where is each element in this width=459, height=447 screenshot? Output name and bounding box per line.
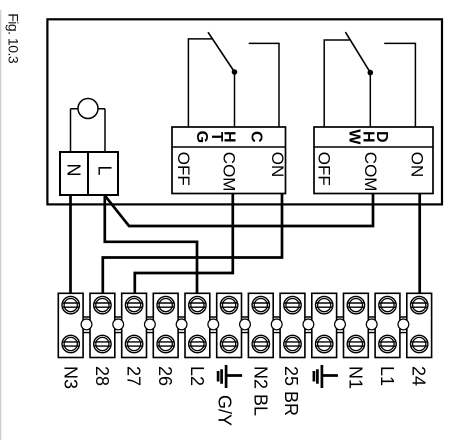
wire L to SW2 COM — [105, 194, 373, 226]
N/L divider — [87, 152, 89, 195]
neon lamp bulb — [78, 99, 98, 119]
mains terminal block N/L — [60, 152, 118, 195]
svg-text:N: N — [64, 164, 84, 177]
svg-text:N3: N3 — [60, 366, 80, 389]
svg-text:28: 28 — [92, 366, 112, 386]
svg-text:N1: N1 — [345, 366, 365, 389]
switch SW2 DHW body — [314, 127, 433, 194]
svg-text:G: G — [193, 131, 210, 143]
svg-text:G/Y: G/Y — [214, 395, 234, 426]
svg-text:25 BR: 25 BR — [281, 366, 301, 416]
svg-text:C: C — [248, 131, 265, 143]
svg-text:H: H — [221, 131, 238, 143]
SW2 lever (diagonal) — [345, 32, 370, 73]
svg-text:N2 BL: N2 BL — [250, 366, 270, 416]
svg-text:COM: COM — [361, 152, 380, 192]
terminal strip blocks — [58, 293, 431, 357]
wire SW1 COM to terminal 27 — [135, 194, 233, 295]
wire SW2 ON to terminal 24 — [418, 194, 421, 295]
svg-text:D: D — [373, 131, 390, 143]
SW2 pivot dot — [368, 70, 374, 76]
svg-text:26: 26 — [155, 366, 175, 386]
SW1 lever (diagonal) — [208, 32, 235, 72]
svg-text:27: 27 — [124, 366, 144, 386]
SW2 COM pole wire — [369, 73, 371, 127]
terminal screws bottom row — [62, 335, 79, 352]
wire SW1 ON to terminal 28 — [103, 194, 282, 295]
SW2 ON contact wire — [384, 43, 415, 127]
SW2 band divider — [314, 146, 433, 148]
SW1 band divider — [172, 146, 286, 148]
svg-text:L2: L2 — [187, 366, 207, 386]
programmer enclosure box — [47, 19, 442, 204]
svg-text:OFF: OFF — [174, 152, 193, 186]
svg-text:COM: COM — [220, 152, 239, 192]
svg-text:L: L — [95, 165, 115, 175]
SW1 ON contact wire — [249, 43, 279, 127]
svg-text:ON: ON — [268, 152, 287, 178]
SW1 COM pole wire — [234, 72, 236, 127]
scan edge line — [0, 10, 1, 440]
SW1 pivot dot — [232, 69, 238, 75]
SW1 OFF pole wire — [188, 39, 213, 127]
svg-text:Fig. 10.3: Fig. 10.3 — [5, 13, 21, 64]
SW2 OFF pole wire — [324, 40, 350, 127]
svg-text:24: 24 — [409, 366, 429, 386]
svg-text:L1: L1 — [377, 366, 397, 386]
strip bridge bars — [83, 317, 407, 333]
wire N to terminal N3 — [69, 195, 72, 295]
svg-text:OFF: OFF — [315, 152, 334, 186]
earth symbol at terminal 9 — [314, 365, 338, 388]
wire L to terminal L2 — [105, 195, 197, 295]
earth symbol at terminal 6 — [218, 365, 242, 388]
neon lamp leads — [71, 109, 106, 152]
terminal screws top row — [62, 296, 79, 313]
switch SW1 HTG body — [172, 127, 286, 194]
strip bridge holes — [81, 319, 409, 330]
svg-text:ON: ON — [407, 152, 426, 178]
